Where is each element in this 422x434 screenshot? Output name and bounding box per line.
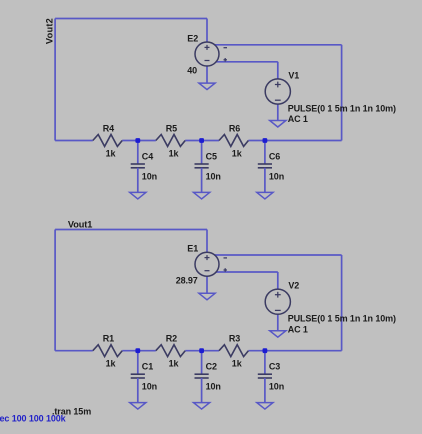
wire C2 top lead bbox=[201, 351, 203, 375]
wire right vertical bbox=[341, 255, 343, 351]
svg-text:R6: R6 bbox=[229, 123, 240, 133]
wire E control plus stub bbox=[216, 271, 278, 273]
wire C2 bottom lead bbox=[201, 378, 203, 403]
capacitor C2 bbox=[195, 373, 209, 375]
vcvs E1 bbox=[195, 252, 219, 276]
svg-text:C6: C6 bbox=[269, 151, 280, 161]
wire V2 bottom lead bbox=[277, 314, 279, 330]
svg-text:Vout2: Vout2 bbox=[44, 18, 54, 44]
wire E2 bottom lead bbox=[206, 66, 208, 83]
wire E2 top lead bbox=[206, 19, 208, 43]
svg-text:E2: E2 bbox=[187, 33, 198, 43]
wire E1 bottom lead bbox=[206, 276, 208, 293]
wire down to V1 bbox=[277, 62, 279, 79]
svg-text:1k: 1k bbox=[106, 359, 117, 369]
voltage source V1 bbox=[265, 79, 290, 104]
junction at C3 bbox=[263, 348, 268, 353]
wire C5 bottom lead bbox=[201, 168, 203, 193]
voltage source V2 bbox=[265, 289, 290, 314]
wire C4 bottom lead bbox=[137, 168, 139, 193]
wire C1 top lead bbox=[137, 351, 139, 375]
svg-text:10n: 10n bbox=[269, 382, 284, 392]
capacitor C6 bbox=[258, 163, 272, 165]
svg-text:1k: 1k bbox=[106, 148, 117, 158]
wire E control minus to right vertical bbox=[214, 44, 341, 46]
wire C1 bottom lead bbox=[137, 378, 139, 403]
svg-text:1k: 1k bbox=[169, 148, 180, 158]
svg-text:1k: 1k bbox=[169, 359, 180, 369]
resistor R3 bbox=[219, 345, 248, 357]
wire rail segment 1 bbox=[55, 140, 93, 142]
svg-text:ec 100 100 100k: ec 100 100 100k bbox=[0, 414, 67, 424]
ground under C3 bbox=[257, 403, 273, 410]
junction at C5 bbox=[199, 138, 204, 143]
wire rail segment 2 bbox=[122, 140, 156, 142]
ground under E1 bbox=[199, 293, 215, 300]
svg-text:AC 1: AC 1 bbox=[288, 324, 308, 334]
svg-text:C5: C5 bbox=[206, 151, 217, 161]
svg-text:PULSE(0 1 5m 1n 1n 10m): PULSE(0 1 5m 1n 1n 10m) bbox=[288, 103, 396, 113]
junction at C2 bbox=[199, 348, 204, 353]
ground under V2 bbox=[270, 331, 286, 338]
wire top horizontal bbox=[55, 229, 207, 231]
svg-text:R1: R1 bbox=[103, 334, 114, 344]
wire rail segment 4 bbox=[248, 140, 341, 142]
svg-text:R5: R5 bbox=[166, 123, 177, 133]
wire down to V2 bbox=[277, 272, 279, 289]
resistor R1 bbox=[93, 345, 122, 357]
wire C6 top lead bbox=[264, 141, 266, 165]
wire C4 top lead bbox=[137, 141, 139, 165]
wire left vertical bbox=[54, 19, 56, 141]
svg-text:28.97: 28.97 bbox=[176, 276, 198, 286]
ground under C1 bbox=[130, 403, 146, 410]
capacitor C1 bbox=[131, 373, 145, 375]
capacitor C5 bbox=[195, 163, 209, 165]
wire top horizontal bbox=[55, 18, 207, 20]
wire V1 bottom lead bbox=[277, 104, 279, 120]
ground under V1 bbox=[270, 121, 286, 128]
wire C3 bottom lead bbox=[264, 378, 266, 403]
svg-text:V1: V1 bbox=[288, 70, 299, 80]
svg-text:V2: V2 bbox=[288, 281, 299, 291]
resistor R2 bbox=[156, 345, 185, 357]
ground under C6 bbox=[257, 192, 273, 199]
svg-text:PULSE(0 1 5m 1n 1n 10m): PULSE(0 1 5m 1n 1n 10m) bbox=[288, 314, 396, 324]
svg-text:R4: R4 bbox=[103, 123, 114, 133]
svg-text:10n: 10n bbox=[142, 382, 157, 392]
svg-text:C3: C3 bbox=[269, 362, 280, 372]
svg-text:R2: R2 bbox=[166, 334, 177, 344]
ground under C4 bbox=[130, 192, 146, 199]
ground under C2 bbox=[194, 403, 210, 410]
junction at C6 bbox=[263, 138, 268, 143]
ground under E2 bbox=[199, 83, 215, 90]
svg-text:1k: 1k bbox=[232, 359, 243, 369]
wire rail segment 4 bbox=[248, 350, 341, 352]
wire C6 bottom lead bbox=[264, 168, 266, 193]
svg-text:AC 1: AC 1 bbox=[288, 114, 308, 124]
wire right vertical bbox=[341, 45, 343, 141]
svg-text:10n: 10n bbox=[269, 172, 284, 182]
wire rail segment 1 bbox=[55, 350, 93, 352]
svg-text:10n: 10n bbox=[206, 172, 221, 182]
wire rail segment 3 bbox=[185, 140, 219, 142]
svg-text:Vout1: Vout1 bbox=[68, 219, 92, 229]
wire E control minus to right vertical bbox=[214, 254, 341, 256]
junction at C4 bbox=[135, 138, 140, 143]
svg-text:C1: C1 bbox=[142, 362, 153, 372]
capacitor C4 bbox=[131, 163, 145, 165]
junction at C1 bbox=[135, 348, 140, 353]
svg-text:1k: 1k bbox=[232, 148, 243, 158]
svg-text:10n: 10n bbox=[206, 382, 221, 392]
svg-text:R3: R3 bbox=[229, 334, 240, 344]
wire rail segment 3 bbox=[185, 350, 219, 352]
ground under C5 bbox=[194, 192, 210, 199]
wire rail segment 2 bbox=[122, 350, 156, 352]
resistor R5 bbox=[156, 135, 185, 147]
svg-text:10n: 10n bbox=[142, 172, 157, 182]
wire C3 top lead bbox=[264, 351, 266, 375]
svg-text:C4: C4 bbox=[142, 151, 153, 161]
vcvs E2 bbox=[195, 42, 219, 66]
wire left vertical bbox=[54, 230, 56, 351]
wire C5 top lead bbox=[201, 141, 203, 165]
svg-text:C2: C2 bbox=[206, 362, 217, 372]
wire E1 top lead bbox=[206, 230, 208, 253]
resistor R4 bbox=[93, 135, 122, 147]
svg-text:40: 40 bbox=[187, 66, 197, 76]
svg-text:E1: E1 bbox=[187, 244, 198, 254]
capacitor C3 bbox=[258, 373, 272, 375]
wire E control plus stub bbox=[216, 61, 278, 63]
resistor R6 bbox=[219, 135, 248, 147]
